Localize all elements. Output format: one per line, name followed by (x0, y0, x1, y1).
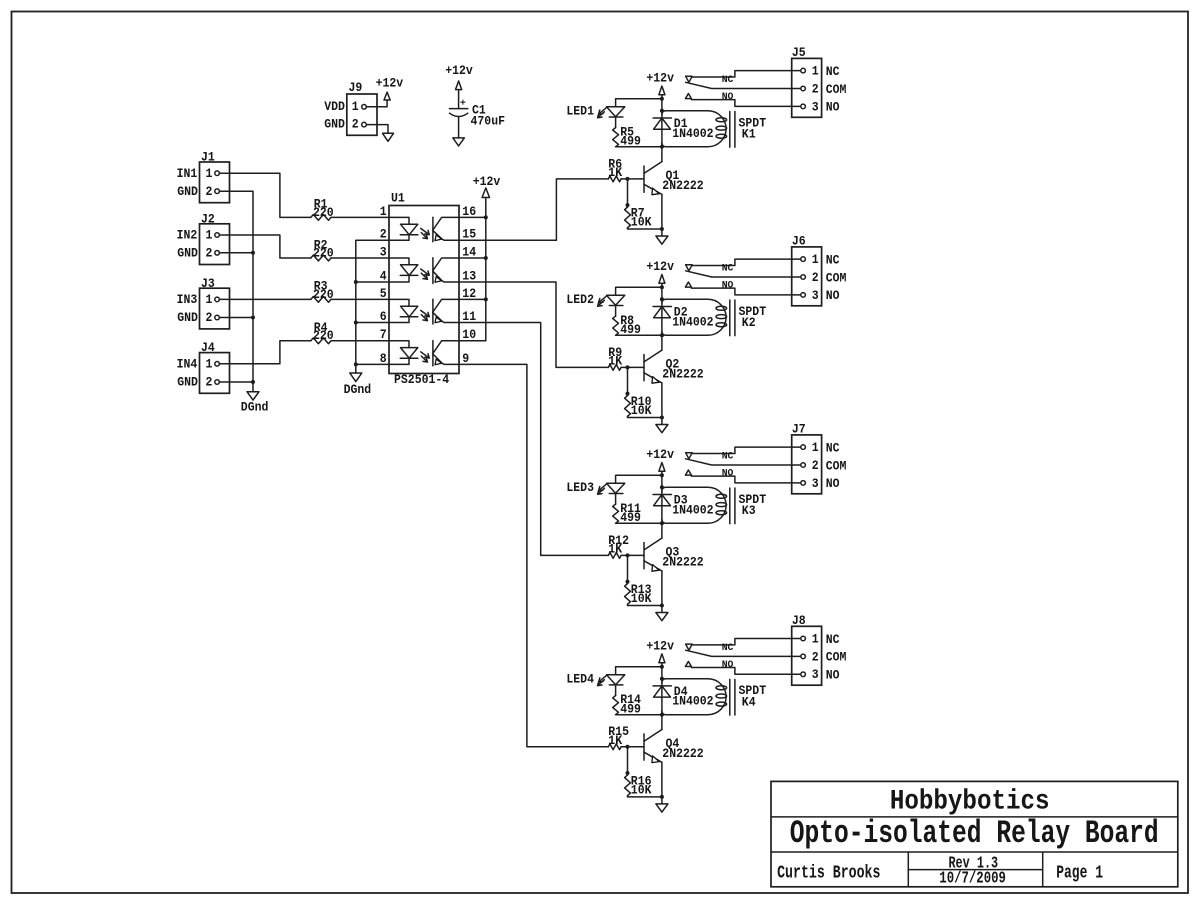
wire R10 to emitter (628, 416, 662, 417)
svg-text:NC: NC (826, 632, 840, 647)
svg-text:3: 3 (812, 288, 819, 303)
svg-text:2: 2 (812, 649, 819, 664)
junction +12v branch K3 (660, 473, 664, 477)
svg-text:Curtis Brooks: Curtis Brooks (777, 864, 880, 884)
svg-text:3: 3 (812, 99, 819, 114)
svg-text:LED3: LED3 (566, 480, 594, 495)
svg-text:LED2: LED2 (566, 292, 594, 307)
junction coil bottom K3 (660, 521, 664, 525)
U1 optocoupler gate 1 LED (389, 217, 409, 224)
svg-text:GND: GND (177, 184, 198, 199)
relay coil K3 (662, 487, 726, 523)
transistor Q4 2N2222 (643, 734, 645, 760)
svg-text:J4: J4 (201, 340, 215, 355)
svg-text:1K: 1K (608, 354, 622, 369)
junction emitter gnd Q3 (660, 604, 664, 608)
transistor Q2 2N2222 (643, 355, 645, 381)
svg-text:NC: NC (826, 252, 840, 267)
junction emitter gnd Q2 (660, 416, 664, 420)
wire R15 to base (621, 746, 644, 748)
wire base to R10 (627, 367, 629, 395)
svg-text:13: 13 (462, 268, 476, 283)
resistor R7 10K (625, 207, 631, 228)
relay K4 NO contact (685, 661, 691, 666)
wire R11 to rail (616, 522, 662, 524)
U1 gate 4 light arrows (421, 352, 430, 358)
wire J9 pin2 to ground (366, 125, 388, 134)
connector J4 (200, 353, 230, 394)
resistor R10 10K (625, 396, 631, 417)
svg-text:15: 15 (462, 227, 476, 242)
rail wire K2 (661, 287, 663, 350)
wire C1 bottom (458, 117, 460, 138)
svg-text:NC: NC (826, 64, 840, 79)
U1 ground bus wire (356, 240, 389, 373)
junction coil top K4 (660, 677, 664, 681)
junction U1 pin4 gnd (354, 280, 358, 284)
U1 optocoupler gate 1 phototransistor (432, 217, 434, 242)
svg-text:1: 1 (812, 440, 819, 455)
wire base to R13 (627, 555, 629, 583)
relay coil K2 (662, 299, 726, 335)
svg-text:10K: 10K (631, 591, 652, 606)
svg-text:IN2: IN2 (177, 228, 198, 243)
svg-text:Hobbybotics: Hobbybotics (890, 787, 1050, 818)
svg-text:NO: NO (722, 468, 734, 480)
svg-text:11: 11 (462, 309, 476, 324)
junction J3 GND (251, 316, 255, 320)
diode D1 1N4002 (653, 117, 671, 119)
wire U1 pin12 to rail (459, 298, 486, 300)
wire R7 to emitter (628, 228, 662, 229)
LED2 light arrows (599, 296, 607, 302)
svg-text:IN1: IN1 (177, 166, 198, 181)
wire U1 pin11 to R12 (459, 323, 608, 556)
svg-text:10K: 10K (631, 215, 652, 230)
svg-text:PS2501-4: PS2501-4 (394, 372, 449, 387)
svg-text:K2: K2 (742, 315, 756, 330)
rail wire K3 (661, 475, 663, 538)
svg-text:16: 16 (462, 204, 476, 219)
resistor R15 1K base (608, 744, 621, 750)
svg-text:10/7/2009: 10/7/2009 (939, 869, 1006, 888)
connector J1 (200, 162, 230, 203)
relay coil K4 (662, 679, 726, 715)
U1 optocoupler gate 3 phototransistor (432, 299, 434, 324)
svg-text:NO: NO (826, 100, 840, 115)
svg-text:J6: J6 (792, 234, 806, 249)
svg-text:NO: NO (722, 659, 734, 671)
svg-text:NO: NO (826, 476, 840, 491)
wire R5 to rail (616, 146, 662, 148)
svg-text:K3: K3 (742, 503, 756, 518)
resistor R16 10K (625, 775, 631, 796)
svg-text:6: 6 (380, 309, 387, 324)
ground at Q1 (661, 229, 663, 236)
wire U1 pin16 to rail (459, 216, 486, 218)
LED LED1 (607, 107, 625, 117)
svg-text:+12v: +12v (646, 447, 674, 462)
junction +12v branch K4 (660, 665, 664, 669)
svg-text:1: 1 (206, 228, 213, 243)
LED1 light arrows (599, 108, 607, 114)
junction U1 pin14 (484, 256, 488, 260)
resistor R11 499 (615, 494, 617, 505)
svg-text:1K: 1K (608, 733, 622, 748)
ground at Q2 (661, 418, 663, 425)
wire R13 to emitter (628, 604, 662, 605)
LED3 light arrows (599, 484, 607, 490)
U1 gate 2 light arrows (421, 269, 430, 275)
svg-text:1N4002: 1N4002 (672, 314, 714, 329)
wire R2 to U1 (331, 257, 389, 259)
wire +12v to LED1 (616, 99, 662, 107)
U1 optocoupler gate 4 LED (389, 341, 409, 348)
svg-text:1N4002: 1N4002 (672, 694, 714, 709)
junction base Q1 (626, 177, 630, 181)
svg-text:COM: COM (826, 650, 847, 665)
svg-text:NO: NO (722, 280, 734, 292)
resistor R8 499 (615, 306, 617, 317)
junction base Q2 (626, 365, 630, 369)
diode D3 1N4002 (653, 494, 671, 496)
relay K1 core (729, 112, 731, 148)
svg-text:1: 1 (812, 252, 819, 267)
wire R8 to rail (616, 334, 662, 336)
U1 +12v rail wire (459, 198, 486, 341)
junction coil top K2 (660, 297, 664, 301)
svg-text:2: 2 (206, 310, 213, 325)
wire +12v to LED3 (616, 475, 662, 483)
svg-text:LED1: LED1 (566, 103, 594, 118)
relay K2 armature wire (686, 271, 801, 277)
svg-text:2: 2 (206, 375, 213, 390)
junction R13 top (626, 580, 630, 584)
svg-text:10K: 10K (631, 403, 652, 418)
svg-text:2N2222: 2N2222 (662, 555, 704, 570)
resistor R9 1K base (608, 365, 621, 371)
DGnd symbol at U1 (350, 373, 362, 382)
svg-text:1: 1 (206, 166, 213, 181)
svg-text:DGnd: DGnd (344, 382, 372, 397)
svg-text:+12v: +12v (646, 638, 674, 653)
wire base to R7 (627, 179, 629, 207)
connector J3 (200, 288, 230, 329)
svg-text:8: 8 (380, 351, 387, 366)
junction U1 pin16 (484, 215, 488, 219)
+12v supply symbol at J9 (384, 92, 390, 100)
ground bus wire from J1-J4 GND pins (219, 191, 253, 392)
svg-text:1: 1 (352, 99, 359, 114)
junction R16 top (626, 771, 630, 775)
junction coil bottom K4 (660, 713, 664, 717)
svg-text:2N2222: 2N2222 (662, 367, 704, 382)
wire R1 to U1 (331, 216, 389, 218)
junction base Q4 (626, 745, 630, 749)
LED LED4 (607, 675, 625, 685)
relay K4 core (729, 679, 731, 715)
diode D4 1N4002 (653, 685, 671, 687)
wire +12v to LED4 (616, 667, 662, 675)
wire R3 to U1 (331, 298, 389, 300)
svg-text:J2: J2 (201, 211, 215, 226)
junction R7 top (626, 203, 630, 207)
svg-text:2: 2 (206, 246, 213, 261)
junction U1 pin8 gnd (354, 362, 358, 366)
svg-text:K1: K1 (742, 126, 756, 141)
svg-text:Opto-isolated Relay Board: Opto-isolated Relay Board (790, 815, 1159, 852)
junction U1 pin6 gnd (354, 321, 358, 325)
svg-text:5: 5 (380, 286, 387, 301)
connector J8 (792, 626, 822, 685)
svg-text:J7: J7 (792, 422, 806, 437)
svg-text:J8: J8 (792, 613, 806, 628)
svg-text:NO: NO (826, 288, 840, 303)
LED LED2 (607, 295, 625, 305)
wire R16 to emitter (628, 796, 662, 797)
transistor Q1 2N2222 (643, 166, 645, 192)
LED LED3 (607, 483, 625, 493)
relay K3 armature wire (686, 459, 801, 465)
LED4 light arrows (599, 676, 607, 682)
svg-text:3: 3 (812, 476, 819, 491)
relay K3 NO contact (685, 470, 691, 475)
svg-text:GND: GND (177, 310, 198, 325)
relay coil K1 (662, 111, 726, 147)
resistor R4 220 (311, 338, 331, 344)
U1 gate 1 light arrows (421, 228, 430, 234)
ground at Q4 (661, 797, 663, 804)
relay K2 NC contact (686, 265, 693, 271)
svg-text:+12v: +12v (646, 259, 674, 274)
wire U1 pin9 to R15 (459, 364, 608, 746)
relay K4 armature wire (686, 650, 801, 656)
U1 gate 3 light arrows (421, 310, 430, 316)
wire J9 pin1 to +12v (366, 100, 387, 107)
svg-text:J9: J9 (349, 80, 363, 95)
svg-text:COM: COM (826, 458, 847, 473)
svg-text:NC: NC (722, 263, 734, 275)
svg-text:2: 2 (380, 227, 387, 242)
svg-text:10K: 10K (631, 783, 652, 798)
junction +12v branch K2 (660, 285, 664, 289)
wire emitter Q3 (661, 571, 663, 606)
wire J4 IN4 to R4 (219, 341, 310, 364)
relay K2 NO contact (685, 282, 691, 287)
ground at Q3 (661, 606, 663, 613)
wire U1 pin14 to rail (459, 257, 486, 259)
svg-text:10: 10 (462, 327, 476, 342)
svg-text:1K: 1K (608, 165, 622, 180)
svg-text:+12v: +12v (646, 70, 674, 85)
svg-text:IN4: IN4 (177, 357, 198, 372)
wire C1 top (458, 90, 460, 109)
svg-text:2: 2 (812, 458, 819, 473)
resistor R3 220 (311, 297, 331, 303)
svg-text:Page 1: Page 1 (1056, 864, 1103, 884)
svg-text:GND: GND (177, 375, 198, 390)
connector J7 (792, 435, 822, 494)
relay K1 NO contact (685, 94, 691, 99)
svg-text:1N4002: 1N4002 (672, 502, 714, 517)
wire U1 pin13 to R9 (459, 282, 608, 367)
connector J5 (792, 58, 822, 117)
relay K2 core (729, 300, 731, 336)
svg-text:4: 4 (380, 268, 387, 283)
junction coil bottom K1 (660, 145, 664, 149)
wire emitter Q4 (661, 762, 663, 797)
op-to-coupler U1 PS2501-4 box (389, 206, 459, 374)
wire J3 IN3 to R3 (219, 298, 310, 300)
svg-text:NC: NC (722, 74, 734, 86)
svg-text:470uF: 470uF (471, 114, 506, 129)
svg-text:J3: J3 (201, 276, 215, 291)
junction J2 GND (251, 251, 255, 255)
wire R9 to base (621, 366, 644, 368)
svg-text:12: 12 (462, 286, 476, 301)
resistor R14 499 (615, 685, 617, 696)
svg-text:3: 3 (380, 244, 387, 259)
svg-text:2N2222: 2N2222 (662, 746, 704, 761)
wire J2 IN2 to R2 (219, 235, 310, 258)
svg-text:1: 1 (812, 64, 819, 79)
svg-text:1: 1 (380, 204, 387, 219)
wire R12 to base (621, 554, 644, 556)
svg-text:GND: GND (324, 117, 345, 132)
capacitor C1 (450, 108, 468, 110)
junction R10 top (626, 392, 630, 396)
relay K1 NC contact (686, 76, 693, 82)
junction U1 pin12 (484, 297, 488, 301)
wire emitter Q1 (661, 194, 663, 229)
svg-text:J1: J1 (201, 150, 215, 165)
junction base Q3 (626, 553, 630, 557)
svg-text:NC: NC (826, 440, 840, 455)
svg-text:9: 9 (462, 351, 469, 366)
ground at J9 (383, 133, 394, 141)
svg-text:2N2222: 2N2222 (662, 178, 704, 193)
junction coil top K3 (660, 485, 664, 489)
title block frame (771, 781, 1178, 886)
svg-text:7: 7 (380, 327, 387, 342)
resistor R2 220 (311, 255, 331, 261)
svg-text:NC: NC (722, 451, 734, 463)
junction coil top K1 (660, 109, 664, 113)
resistor R5 499 (615, 117, 617, 128)
svg-text:K4: K4 (742, 694, 756, 709)
wire R6 to base (621, 178, 644, 180)
svg-text:U1: U1 (391, 191, 405, 206)
wire J1 IN1 to R1 (219, 173, 310, 217)
resistor R1 220 (311, 215, 331, 221)
rail wire K1 (661, 99, 663, 162)
svg-text:+12v: +12v (445, 63, 473, 78)
U1 optocoupler gate 4 phototransistor (432, 341, 434, 366)
diode D2 1N4002 (653, 306, 671, 308)
svg-text:2: 2 (206, 184, 213, 199)
connector J9 (347, 94, 377, 135)
wire U1 pin15 to R6 (459, 179, 608, 240)
relay K3 core (729, 488, 731, 524)
svg-text:NO: NO (722, 91, 734, 103)
junction coil bottom K2 (660, 333, 664, 337)
relay K3 NC contact (686, 453, 693, 459)
svg-text:VDD: VDD (324, 99, 345, 114)
svg-text:COM: COM (826, 270, 847, 285)
svg-text:2: 2 (352, 117, 359, 132)
svg-text:IN3: IN3 (177, 292, 198, 307)
svg-text:LED4: LED4 (566, 671, 594, 686)
svg-text:+12v: +12v (473, 174, 501, 189)
resistor R6 1K base (608, 176, 621, 182)
svg-text:1K: 1K (608, 542, 622, 557)
connector J6 (792, 247, 822, 306)
svg-text:14: 14 (462, 244, 476, 259)
svg-text:COM: COM (826, 82, 847, 97)
rail wire K4 (661, 667, 663, 730)
svg-text:DGnd: DGnd (241, 399, 269, 414)
svg-text:2: 2 (812, 270, 819, 285)
relay K4 NC contact (686, 644, 693, 650)
relay K1 armature wire (686, 82, 801, 88)
svg-text:1: 1 (206, 357, 213, 372)
wire +12v to LED2 (616, 287, 662, 295)
svg-text:2: 2 (812, 81, 819, 96)
svg-text:NC: NC (722, 642, 734, 654)
connector J2 (200, 224, 230, 265)
junction emitter gnd Q1 (660, 227, 664, 231)
svg-text:1N4002: 1N4002 (672, 126, 714, 141)
svg-text:1: 1 (206, 292, 213, 307)
DGnd symbol at input bus (247, 392, 259, 400)
svg-text:NO: NO (826, 668, 840, 683)
junction J4 GND (251, 380, 255, 384)
transistor Q3 2N2222 (643, 543, 645, 569)
ground at C1 (453, 138, 465, 146)
svg-text:1: 1 (812, 631, 819, 646)
svg-text:+12v: +12v (376, 75, 404, 90)
junction +12v branch K1 (660, 97, 664, 101)
resistor R12 1K base (608, 553, 621, 559)
wire emitter Q2 (661, 383, 663, 418)
svg-text:GND: GND (177, 246, 198, 261)
junction emitter gnd Q4 (660, 795, 664, 799)
wire base to R16 (627, 747, 629, 775)
svg-text:3: 3 (812, 667, 819, 682)
U1 optocoupler gate 2 LED (389, 258, 409, 265)
U1 optocoupler gate 2 phototransistor (432, 258, 434, 284)
U1 optocoupler gate 3 LED (389, 299, 409, 306)
svg-text:J5: J5 (792, 45, 806, 60)
resistor R13 10K (625, 584, 631, 605)
wire R4 to U1 (331, 340, 389, 342)
wire R14 to rail (616, 714, 662, 716)
